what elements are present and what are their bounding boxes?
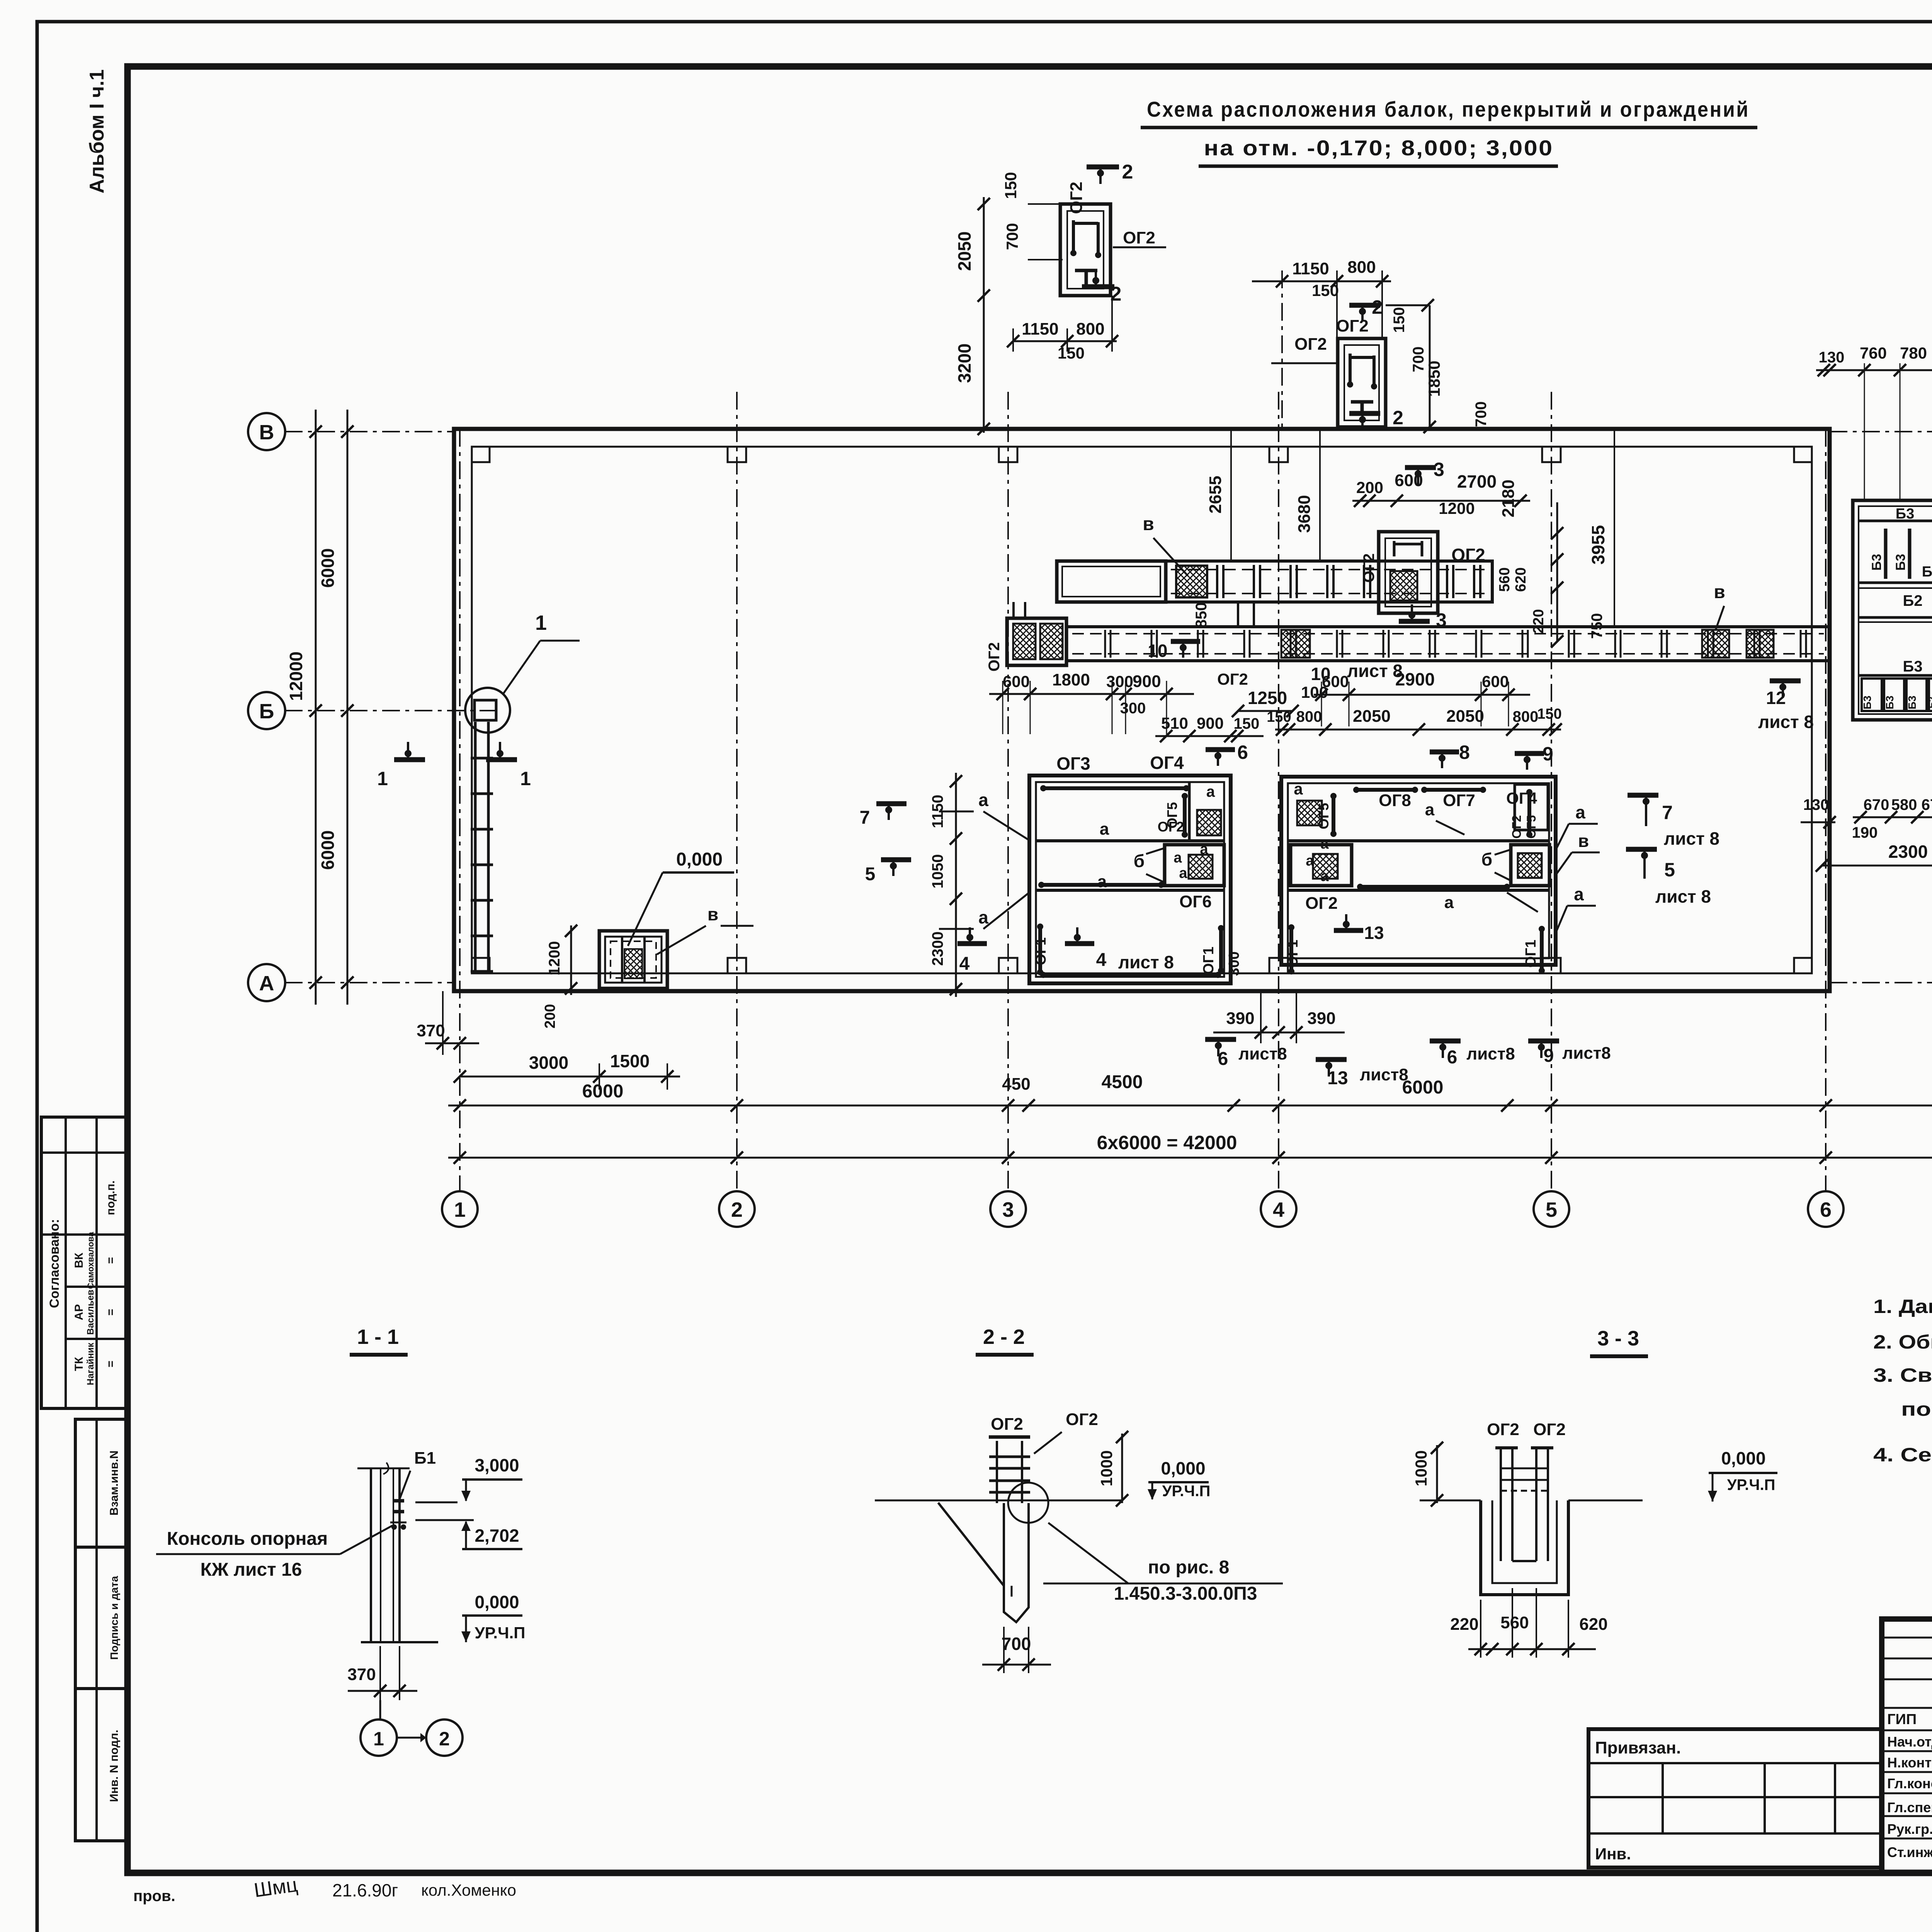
svg-text:600: 600 [1482, 672, 1509, 690]
svg-text:лист 8: лист 8 [1655, 886, 1711, 906]
section mark 2 above detail left [1087, 165, 1119, 170]
section 2-2 ground line [875, 1500, 1122, 1502]
svg-text:ОГ5: ОГ5 [1524, 815, 1538, 839]
svg-text:а: а [1574, 884, 1584, 904]
svg-text:6000: 6000 [318, 830, 338, 870]
top wall corner stub right [1794, 447, 1812, 462]
svg-text:ОГ1: ОГ1 [1285, 940, 1301, 968]
svg-text:пров.: пров. [133, 1888, 175, 1905]
left pit divider 1 [1036, 839, 1224, 842]
svg-text:А: А [259, 972, 274, 995]
svg-text:Б3: Б3 [1893, 554, 1908, 570]
svg-text:ОГ2: ОГ2 [1066, 1410, 1098, 1429]
svg-text:760: 760 [1860, 344, 1887, 362]
svg-text:1.450.3-3.00.0П3: 1.450.3-3.00.0П3 [1114, 1583, 1257, 1604]
svg-text:Взам.инв.N: Взам.инв.N [108, 1451, 121, 1515]
svg-text:по ГОСТ 9467-75, катет шва: по ГОСТ 9467-75, катет шва Кf = 6мм. [1901, 1398, 1932, 1420]
svg-text:Б2: Б2 [1927, 697, 1932, 709]
svg-text:1500: 1500 [610, 1051, 650, 1071]
svg-text:3 - 3: 3 - 3 [1597, 1327, 1639, 1350]
section mark 2 above detail mid [1349, 303, 1380, 308]
top wall column stub grid2 [728, 447, 746, 462]
section mark 4 inside [1065, 941, 1094, 946]
row A centerline right extension [1830, 982, 1932, 983]
dim 370 bottom left [425, 1043, 479, 1044]
right pit OG5 bar left [1332, 796, 1335, 834]
svg-text:150: 150 [1312, 281, 1339, 299]
svg-text:2300: 2300 [1888, 842, 1928, 862]
svg-text:6000: 6000 [318, 548, 338, 588]
svg-text:а: а [1294, 780, 1303, 798]
section 2-2 rails [989, 1456, 1030, 1458]
svg-text:ОГ3: ОГ3 [1056, 753, 1090, 774]
svg-text:1150: 1150 [1292, 259, 1329, 278]
svg-text:в: в [1714, 582, 1725, 602]
svg-text:Рук.гр.: Рук.гр. [1887, 1821, 1932, 1837]
svg-text:2050: 2050 [1353, 707, 1391, 726]
svg-text:580: 580 [1891, 796, 1917, 813]
svg-text:а: а [1200, 841, 1208, 857]
dims above detail mid 1150 800 [1252, 281, 1391, 282]
svg-text:Согласовано:: Согласовано: [47, 1219, 62, 1308]
B3 block inner [1859, 506, 1932, 714]
svg-text:а: а [1444, 893, 1454, 912]
svg-text:ОГ2: ОГ2 [1217, 670, 1248, 688]
left pit divider 2 [1036, 889, 1224, 892]
B3 block outer [1853, 500, 1932, 720]
svg-text:3: 3 [1434, 459, 1444, 480]
svg-text:1: 1 [454, 1198, 466, 1221]
section 3-3 channel inner [1492, 1500, 1557, 1583]
axis circle A [248, 964, 285, 1001]
svg-text:700: 700 [1003, 223, 1021, 250]
approval table verticals [65, 1117, 67, 1408]
svg-text:ТК: ТК [73, 1357, 85, 1371]
detail OG2 left I-beam symbol [1075, 269, 1097, 272]
right pit top-right corner panel [1515, 784, 1548, 830]
B3 bottom dims 670 580 670 [1853, 816, 1932, 818]
svg-text:800: 800 [1347, 258, 1376, 277]
attach table rows [1588, 1762, 1882, 1764]
svg-text:600: 600 [1003, 672, 1030, 690]
svg-text:2180: 2180 [1499, 480, 1518, 517]
svg-text:а: а [1179, 865, 1187, 881]
svg-text:3. Сварку производить элект: 3. Сварку производить электродами типа Э… [1873, 1364, 1932, 1386]
dim 1250 100 [1238, 710, 1293, 712]
svg-text:1850: 1850 [1425, 361, 1443, 396]
axis circle V [248, 413, 285, 450]
svg-text:2: 2 [439, 1728, 450, 1750]
svg-text:лист8: лист8 [1562, 1044, 1611, 1063]
svg-text:Привязан.: Привязан. [1595, 1738, 1681, 1757]
svg-text:200: 200 [542, 1004, 558, 1028]
svg-text:ОГ8: ОГ8 [1379, 791, 1411, 810]
svg-text:3955: 3955 [1588, 525, 1608, 565]
svg-text:1250: 1250 [1248, 688, 1287, 708]
section 3-3 ground lines [1420, 1500, 1481, 1502]
svg-text:лист 8: лист 8 [1758, 712, 1814, 732]
svg-text:6000: 6000 [582, 1081, 624, 1102]
right pit inner wall [1288, 783, 1549, 958]
svg-text:21.6.90г: 21.6.90г [332, 1880, 398, 1900]
svg-text:150: 150 [1234, 715, 1260, 732]
svg-text:4. Сечение 4-4... 16-16 см.: 4. Сечение 4-4... 16-16 см. на листе 8. [1873, 1444, 1932, 1466]
svg-text:ОГ7: ОГ7 [1443, 791, 1475, 810]
svg-text:2: 2 [1122, 161, 1133, 183]
left pit top panel bar OG3-OG4 [1043, 786, 1186, 790]
svg-text:Нагайник: Нагайник [85, 1342, 96, 1385]
svg-text:Гл.спец.: Гл.спец. [1887, 1799, 1932, 1815]
svg-text:ОГ2: ОГ2 [1487, 1420, 1519, 1439]
svg-text:Ст.инж.: Ст.инж. [1887, 1844, 1932, 1860]
svg-text:Б3: Б3 [1861, 696, 1873, 709]
svg-text:лист8: лист8 [1466, 1044, 1515, 1063]
svg-text:1: 1 [520, 768, 531, 789]
svg-text:7: 7 [1662, 802, 1673, 823]
grid axis circles 1-7 [442, 1191, 478, 1227]
svg-text:12000: 12000 [286, 651, 306, 701]
svg-text:ОГ1: ОГ1 [1201, 947, 1217, 975]
svg-text:620: 620 [1513, 567, 1529, 592]
svg-text:2655: 2655 [1206, 476, 1225, 514]
svg-text:1: 1 [373, 1728, 384, 1750]
svg-text:390: 390 [1307, 1009, 1335, 1028]
svg-text:220: 220 [1531, 609, 1547, 633]
svg-text:Б3: Б3 [1922, 564, 1932, 580]
svg-text:2 - 2: 2 - 2 [983, 1325, 1025, 1349]
lower strip rungs [1104, 630, 1106, 658]
svg-text:150: 150 [1537, 706, 1561, 722]
svg-text:Инв. N подл.: Инв. N подл. [108, 1730, 121, 1802]
dims above upper strip 200 600 2700 [1352, 500, 1530, 502]
B3 block top dims 130 760 780 [1816, 369, 1932, 371]
svg-text:620: 620 [1579, 1615, 1607, 1634]
svg-text:3680: 3680 [1295, 495, 1314, 533]
B3 dim 2300 [1822, 865, 1932, 867]
section 1-1 console marks [393, 1499, 404, 1503]
upper strip OG2 box top bars [1393, 541, 1396, 556]
B3 block divider double 2 [1859, 616, 1932, 619]
svg-text:Схема расположения балок, пере: Схема расположения балок, перекрытий и о… [1147, 97, 1750, 121]
right pit mid-right sub-box [1511, 845, 1549, 886]
svg-text:3,000: 3,000 [474, 1455, 519, 1475]
top wall corner stub left [472, 447, 490, 462]
title block outer frame [1882, 1619, 1932, 1873]
lower strip inner dashed lines [1072, 633, 1824, 634]
svg-text:ОГ2: ОГ2 [1533, 1420, 1566, 1439]
section mark 6 list8 bottom [1205, 1037, 1236, 1042]
section mark 1 left [394, 757, 425, 762]
upper strip OG2 box hatch [1390, 571, 1417, 600]
lower strip hatch right 1 [1702, 630, 1729, 658]
section mark 9 list8 bottom far right [1528, 1039, 1559, 1044]
detail OG2 mid I-beam symbol [1351, 400, 1373, 404]
svg-text:В: В [259, 421, 274, 444]
svg-text:а: а [1320, 836, 1329, 852]
svg-text:150: 150 [1391, 307, 1408, 333]
row V centerline left [285, 431, 454, 432]
section 3-3 post caps [1495, 1446, 1518, 1449]
svg-text:в: в [1578, 831, 1589, 851]
svg-text:лист 8: лист 8 [1118, 952, 1174, 972]
svg-text:а: а [978, 907, 988, 927]
svg-text:на отм. -0,170; 8,000; 3,000: на отм. -0,170; 8,000; 3,000 [1204, 136, 1554, 160]
svg-text:13: 13 [1327, 1068, 1348, 1088]
right pit lower leader 7 [1507, 893, 1538, 912]
upper strip blank slab [1057, 561, 1166, 602]
right pit 13 mark [1334, 928, 1363, 933]
svg-text:3200: 3200 [954, 344, 975, 383]
svg-text:б: б [1481, 849, 1492, 869]
svg-text:ОГ5: ОГ5 [1316, 803, 1332, 829]
grid axis vertical centerlines [459, 429, 461, 1192]
B3 block top band line [1859, 520, 1932, 522]
svg-text:10: 10 [1148, 641, 1167, 661]
svg-text:Самохвалова: Самохвалова [86, 1231, 95, 1289]
svg-text:а: а [1306, 853, 1314, 869]
upper strip band [1166, 561, 1492, 602]
svg-text:900: 900 [1133, 672, 1161, 691]
svg-text:ОГ2: ОГ2 [1510, 815, 1524, 839]
svg-text:а: а [1173, 850, 1182, 866]
svg-text:ОГ2: ОГ2 [1336, 316, 1369, 335]
title underline 2 [1199, 165, 1558, 168]
title block staff row lines [1882, 1637, 1932, 1639]
svg-text:5: 5 [865, 864, 876, 884]
svg-text:Б1: Б1 [414, 1449, 436, 1468]
section mark 5 left of pit [881, 857, 911, 862]
small pit dashed inner [611, 941, 656, 978]
svg-text:150: 150 [1267, 709, 1291, 725]
svg-text:130: 130 [1819, 349, 1845, 366]
chain right2 150 800 2050 2050 800 150 [1275, 729, 1561, 731]
svg-text:ОГ2: ОГ2 [1294, 335, 1327, 354]
svg-text:Б3: Б3 [1896, 506, 1914, 522]
svg-text:2,702: 2,702 [474, 1526, 519, 1546]
section mark 7 left of pit [876, 801, 906, 806]
section 3-3 rails [1501, 1468, 1548, 1469]
svg-text:600: 600 [1322, 672, 1349, 690]
right pit divider 1 [1288, 839, 1549, 842]
svg-text:2050: 2050 [954, 231, 975, 271]
svg-text:6: 6 [1218, 1049, 1228, 1069]
right pit divider 2 [1288, 889, 1549, 892]
svg-text:9: 9 [1543, 743, 1553, 765]
lower strip band [1066, 627, 1829, 661]
svg-text:УР.Ч.П: УР.Ч.П [475, 1624, 526, 1642]
svg-text:510: 510 [1161, 714, 1188, 732]
svg-text:ОГ2: ОГ2 [1305, 894, 1338, 913]
lower strip left OG2 box [1007, 618, 1066, 665]
svg-text:под.п.: под.п. [104, 1180, 117, 1215]
svg-text:1150: 1150 [1022, 320, 1058, 338]
B3 block mid vertical bars [1884, 529, 1888, 579]
right pit mid-left sub-box [1291, 845, 1352, 886]
svg-text:4: 4 [1096, 950, 1107, 970]
svg-text:2300: 2300 [929, 932, 946, 966]
svg-text:Б3: Б3 [1903, 658, 1923, 675]
svg-text:1000: 1000 [1412, 1450, 1430, 1486]
per-bay dimension line [448, 1105, 1932, 1107]
svg-text:2900: 2900 [1395, 669, 1435, 689]
svg-text:13: 13 [1364, 923, 1384, 943]
section mark 10 left [1171, 639, 1200, 644]
svg-text:7: 7 [860, 808, 870, 828]
right pit top panel bars OG8 OG7 [1356, 788, 1415, 792]
row B centerline left [285, 710, 498, 711]
svg-text:2700: 2700 [1457, 471, 1497, 492]
svg-text:АР: АР [73, 1304, 85, 1320]
svg-text:лист8: лист8 [1360, 1065, 1408, 1084]
svg-text:Б3: Б3 [1869, 554, 1884, 570]
svg-text:лист 8: лист 8 [1664, 828, 1719, 849]
svg-text:=: = [104, 1309, 117, 1316]
svg-text:3000: 3000 [529, 1053, 568, 1073]
right pit mid panel bar [1360, 885, 1507, 889]
detail OG2 left label right with leader [1113, 247, 1166, 248]
right pit outer wall [1281, 777, 1556, 965]
bottom wall corner stub left [472, 958, 490, 973]
svg-text:Нач.отд.: Нач.отд. [1887, 1734, 1932, 1750]
bottom wall column stub grid4 [1269, 958, 1288, 973]
right pit mid-left hatch [1313, 854, 1338, 879]
svg-text:4: 4 [959, 954, 970, 974]
svg-text:700: 700 [1002, 1634, 1031, 1654]
section mark 3 upper [1405, 465, 1436, 470]
guard ladder along left wall [474, 722, 477, 972]
left pit vertical divider top band [1188, 782, 1191, 841]
vertical dim chain right of upper strip [1556, 502, 1558, 641]
svg-text:1200: 1200 [1439, 499, 1475, 517]
svg-text:300: 300 [1106, 672, 1133, 690]
svg-text:150: 150 [1002, 172, 1020, 199]
svg-text:800: 800 [1296, 708, 1322, 725]
left approval table frame [41, 1117, 128, 1408]
svg-text:5: 5 [1546, 1198, 1557, 1221]
svg-text:а: а [1425, 800, 1435, 819]
section mark 6 list8 bottom right [1430, 1039, 1461, 1044]
overall dimension line 6x6000 [448, 1157, 1932, 1159]
svg-text:130: 130 [1803, 796, 1829, 813]
svg-text:Б2: Б2 [1903, 592, 1923, 609]
svg-text:2: 2 [1393, 407, 1403, 429]
svg-text:4: 4 [1273, 1198, 1284, 1221]
svg-text:а: а [978, 790, 988, 810]
chain right 600 2900 600 [1314, 694, 1530, 696]
svg-text:ОГ6: ОГ6 [1179, 892, 1212, 911]
section 3-3 posts [1500, 1448, 1502, 1561]
svg-text:Гл.конст.: Гл.конст. [1887, 1776, 1932, 1791]
left wall column at row B with callout circle [474, 700, 496, 720]
svg-text:1000: 1000 [1097, 1450, 1116, 1486]
svg-text:ОГ1: ОГ1 [1033, 937, 1049, 965]
small pit inner [605, 937, 662, 983]
approval table rows [41, 1151, 128, 1154]
vertical dim 2050 detail left [983, 197, 985, 298]
left pit vertical dim chain 1150 1050 2300 [955, 773, 957, 997]
right pit bottom bars [1289, 927, 1293, 971]
dim line below detail left 1150 800 [1012, 340, 1117, 342]
svg-text:а: а [1320, 868, 1329, 884]
bottom wall column stub grid3 [999, 958, 1017, 973]
svg-text:2050: 2050 [1446, 707, 1484, 726]
svg-text:УР.Ч.П: УР.Ч.П [1162, 1483, 1211, 1500]
lower strip hatch right 2 [1747, 630, 1774, 658]
section 1-1 wall lines [370, 1468, 372, 1642]
svg-text:220: 220 [1450, 1615, 1478, 1634]
left vertical dim line 12000 [315, 410, 317, 1005]
svg-text:1050: 1050 [929, 854, 946, 889]
left pit mid panel bar [1041, 883, 1161, 887]
svg-text:190: 190 [1852, 824, 1878, 841]
svg-text:в: в [1143, 514, 1154, 534]
small pit hatch [624, 949, 642, 978]
svg-text:Подпись и дата: Подпись и дата [108, 1576, 120, 1660]
left bottom mini dims 3000 1500 [460, 1076, 680, 1078]
svg-text:а: а [1206, 783, 1215, 800]
svg-text:12: 12 [1766, 688, 1786, 708]
svg-text:Инв.: Инв. [1595, 1845, 1631, 1863]
left pit bottom band bars [1038, 927, 1042, 972]
top wall column stub grid5 [1542, 447, 1561, 462]
section mark 1 right [486, 757, 517, 762]
upper strip hatch box [1176, 566, 1207, 597]
axis circle B [248, 692, 285, 729]
connector to lower strip OG2 box [1012, 602, 1015, 618]
svg-text:2: 2 [1372, 296, 1383, 318]
chain left 600 1800 300 900 [989, 693, 1194, 695]
bottom wall column stub grid2 [728, 958, 746, 973]
upper strip inner dashed lines [1171, 569, 1488, 570]
svg-text:ВК: ВК [73, 1252, 85, 1268]
right pit mid-right hatch [1518, 853, 1542, 878]
svg-text:3: 3 [1002, 1198, 1014, 1221]
section mark 2 below detail mid [1349, 411, 1380, 416]
top wall column stub grid3 [999, 447, 1017, 462]
svg-text:300: 300 [1226, 951, 1242, 976]
svg-text:по рис. 8: по рис. 8 [1148, 1557, 1230, 1578]
plan inner wall line [472, 447, 1812, 973]
section 2-2 post [989, 1435, 1030, 1439]
svg-text:670: 670 [1864, 796, 1889, 813]
lower strip hatch mid [1281, 630, 1310, 658]
svg-text:670: 670 [1922, 796, 1932, 813]
svg-text:0,000: 0,000 [676, 849, 723, 870]
svg-text:1. Данный лист см. совмест: 1. Данный лист см. совместно с листом 8. [1873, 1296, 1932, 1317]
left pit mid sub-box [1165, 845, 1224, 886]
svg-text:560: 560 [1497, 567, 1513, 592]
bottom wall column stub grid5 [1542, 958, 1561, 973]
right pit top right bars [1527, 792, 1531, 835]
svg-text:ОГ2: ОГ2 [1451, 545, 1485, 565]
section 1-1 axis circles [361, 1719, 397, 1756]
lower strip left OG2 hatches [1013, 624, 1036, 659]
callout leader to detail 1 [503, 641, 540, 694]
svg-text:в: в [707, 904, 718, 924]
svg-text:300: 300 [1120, 700, 1146, 717]
detail OG2 left box [1060, 204, 1111, 296]
svg-text:8: 8 [1459, 742, 1470, 763]
svg-text:ОГ2: ОГ2 [1361, 553, 1378, 583]
detail OG2 mid box [1338, 338, 1386, 427]
svg-text:200: 200 [1356, 478, 1383, 497]
left pit inner wall [1036, 782, 1224, 977]
attach table frame [1588, 1729, 1882, 1867]
svg-text:а: а [1097, 872, 1107, 891]
upper strip rungs [1216, 565, 1218, 598]
detail OG2 mid anchor bars [1349, 354, 1352, 383]
right pit top-left hatch [1297, 801, 1322, 825]
